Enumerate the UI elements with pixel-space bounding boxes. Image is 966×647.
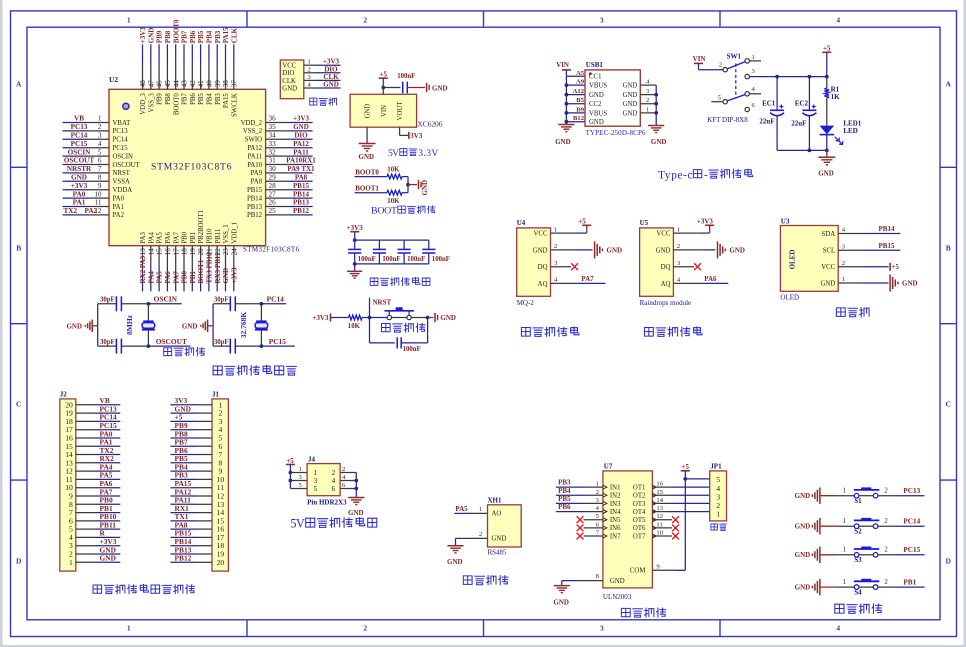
svg-text:2: 2 (884, 488, 888, 495)
svg-text:100nF: 100nF (407, 256, 425, 263)
svg-text:PA4: PA4 (148, 232, 155, 244)
svg-text:GND: GND (432, 84, 448, 92)
svg-text:SW1: SW1 (727, 52, 742, 60)
svg-text:PC14: PC14 (267, 295, 285, 304)
svg-text:100nF: 100nF (358, 256, 376, 263)
svg-text:1: 1 (716, 509, 720, 518)
svg-text:32: 32 (269, 148, 277, 156)
svg-text:GND: GND (623, 83, 638, 90)
svg-text:47: 47 (147, 80, 155, 88)
svg-text:VBUS: VBUS (589, 110, 607, 117)
svg-text:GND: GND (365, 104, 372, 119)
svg-text:DIO: DIO (282, 70, 294, 77)
svg-text:PB6: PB6 (189, 30, 197, 43)
svg-text:PA7: PA7 (581, 275, 594, 283)
svg-text:IN7: IN7 (610, 533, 621, 540)
svg-text:1: 1 (554, 226, 557, 233)
svg-text:33: 33 (269, 140, 277, 148)
svg-text:PA4: PA4 (147, 271, 155, 284)
svg-text:VIN: VIN (693, 55, 706, 63)
svg-text:PB7: PB7 (181, 30, 189, 43)
svg-text:DQ: DQ (538, 264, 548, 271)
svg-text:NRST: NRST (373, 299, 392, 307)
svg-text:OSCOUT: OSCOUT (64, 157, 95, 165)
svg-text:1: 1 (69, 558, 73, 567)
svg-text:30pF: 30pF (214, 297, 229, 304)
svg-text:PB3: PB3 (215, 93, 222, 105)
svg-text:PB12: PB12 (247, 212, 263, 219)
svg-text:GND: GND (902, 280, 918, 288)
svg-text:PA9 TX1: PA9 TX1 (287, 165, 315, 173)
svg-text:PB13: PB13 (293, 199, 309, 207)
svg-text:J2: J2 (60, 390, 68, 398)
svg-text:VDD_1: VDD_1 (231, 222, 238, 244)
svg-text:COM: COM (630, 568, 646, 575)
svg-text:OLED: OLED (789, 250, 797, 270)
svg-text:PA5: PA5 (455, 505, 468, 513)
svg-text:GND: GND (656, 247, 671, 254)
svg-text:37: 37 (230, 80, 238, 88)
svg-text:26: 26 (269, 199, 277, 207)
svg-text:1: 1 (843, 547, 846, 554)
svg-text:1: 1 (127, 16, 131, 25)
svg-text:B5: B5 (576, 97, 584, 104)
svg-text:OT2: OT2 (633, 493, 646, 500)
svg-text:VBAT: VBAT (113, 120, 132, 127)
svg-text:XH1: XH1 (488, 497, 503, 505)
svg-text:GND: GND (293, 123, 309, 131)
svg-text:PB0: PB0 (181, 271, 189, 284)
svg-text:STM32F103C8T6: STM32F103C8T6 (151, 161, 232, 172)
svg-text:GND: GND (607, 246, 623, 254)
svg-text:PB8: PB8 (164, 30, 172, 43)
svg-text:GND: GND (795, 492, 811, 500)
svg-text:PB12: PB12 (175, 554, 192, 563)
svg-text:GND: GND (440, 314, 456, 322)
svg-text:+5: +5 (682, 463, 690, 471)
svg-text:8MHz: 8MHz (125, 314, 134, 335)
svg-text:VIN: VIN (381, 105, 388, 117)
svg-text:PA7: PA7 (173, 232, 180, 244)
svg-text:BOOT: BOOT (371, 206, 397, 217)
svg-text:XC6206: XC6206 (417, 120, 442, 129)
svg-text:2: 2 (554, 243, 557, 250)
svg-text:1: 1 (308, 59, 311, 66)
svg-text:GND: GND (553, 599, 569, 607)
svg-text:+3V3: +3V3 (71, 182, 88, 190)
svg-text:PA12: PA12 (247, 145, 262, 152)
svg-text:7: 7 (98, 165, 102, 173)
svg-text:SDA: SDA (822, 231, 836, 238)
svg-text:U2: U2 (109, 75, 118, 84)
svg-text:VOUT: VOUT (397, 101, 404, 121)
svg-text:C: C (945, 400, 950, 409)
svg-text:+3V3: +3V3 (139, 27, 147, 44)
svg-text:PB13: PB13 (247, 204, 263, 211)
svg-text:48: 48 (139, 80, 147, 88)
svg-text:10K: 10K (387, 167, 400, 174)
svg-text:100nF: 100nF (397, 73, 415, 80)
svg-text:5V: 5V (388, 148, 399, 159)
svg-text:AQ: AQ (538, 281, 548, 288)
svg-text:PB12: PB12 (293, 207, 309, 215)
svg-text:44: 44 (172, 80, 180, 88)
svg-text:100nF: 100nF (382, 256, 400, 263)
svg-text:VDD_2: VDD_2 (241, 120, 263, 127)
svg-text:-: - (704, 169, 708, 181)
svg-text:41: 41 (197, 80, 205, 88)
svg-text:PA2: PA2 (85, 207, 98, 215)
svg-text:2: 2 (677, 243, 680, 250)
svg-text:OLED: OLED (780, 294, 799, 302)
svg-text:PB10: PB10 (207, 228, 214, 244)
svg-text:PB6: PB6 (558, 503, 571, 511)
svg-text:4: 4 (836, 16, 840, 25)
svg-text:22uF: 22uF (791, 119, 806, 127)
svg-text:GND: GND (147, 28, 155, 44)
svg-text:TYPEC-250D-8CP6: TYPEC-250D-8CP6 (586, 129, 647, 137)
svg-text:VSS_3: VSS_3 (148, 93, 155, 113)
svg-text:PB1: PB1 (903, 579, 916, 587)
svg-text:DIO: DIO (294, 132, 308, 140)
svg-text:GND: GND (447, 558, 463, 566)
svg-text:Type-c: Type-c (658, 169, 693, 181)
svg-text:JP1: JP1 (710, 462, 722, 470)
svg-text:PA11: PA11 (247, 153, 262, 160)
svg-text:STM32F103C8T6: STM32F103C8T6 (243, 246, 300, 254)
svg-text:D: D (16, 557, 22, 566)
svg-text:IN6: IN6 (610, 525, 621, 532)
svg-text:PB14: PB14 (293, 190, 309, 198)
svg-text:PC13: PC13 (113, 128, 129, 135)
svg-text:B: B (946, 244, 951, 253)
svg-text:4: 4 (98, 140, 102, 148)
svg-text:10: 10 (94, 190, 102, 198)
svg-text:PB5: PB5 (198, 93, 205, 105)
svg-text:VCC: VCC (282, 63, 296, 70)
svg-text:GND: GND (66, 322, 82, 330)
svg-text:SWCLK: SWCLK (231, 93, 238, 117)
svg-text:PA5: PA5 (157, 232, 164, 244)
svg-text:GND: GND (795, 551, 811, 559)
svg-text:IN2: IN2 (610, 493, 621, 500)
svg-text:2: 2 (842, 260, 845, 267)
svg-text:3.3V: 3.3V (418, 148, 438, 159)
svg-text:PA0: PA0 (73, 190, 86, 198)
svg-text:36: 36 (269, 115, 277, 123)
svg-text:PA3: PA3 (140, 232, 147, 244)
svg-text:S4: S4 (854, 588, 862, 596)
svg-text:CLK: CLK (282, 78, 296, 85)
svg-text:BOOT0: BOOT0 (173, 93, 180, 116)
svg-text:BOOT0: BOOT0 (355, 168, 379, 176)
svg-text:PA6: PA6 (164, 271, 172, 284)
svg-text:40: 40 (206, 80, 214, 88)
svg-text:25: 25 (269, 207, 277, 215)
svg-text:2: 2 (332, 469, 336, 477)
svg-text:2: 2 (363, 623, 367, 632)
svg-text:+3V3: +3V3 (312, 314, 329, 322)
svg-text:GND: GND (533, 247, 548, 254)
svg-text:1: 1 (479, 506, 482, 513)
svg-text:PA12: PA12 (293, 140, 309, 148)
svg-text:1: 1 (314, 469, 318, 477)
svg-text:GND: GND (795, 584, 811, 592)
svg-text:GND: GND (795, 523, 811, 531)
svg-text:A12: A12 (573, 88, 585, 95)
svg-text:B: B (16, 244, 21, 253)
svg-text:PB0: PB0 (182, 231, 189, 243)
svg-text:PC15: PC15 (903, 546, 920, 554)
svg-text:A: A (16, 80, 22, 89)
svg-text:PC14: PC14 (903, 518, 920, 526)
svg-text:OT7: OT7 (633, 533, 646, 540)
svg-text:GND: GND (623, 110, 638, 117)
svg-text:PC13: PC13 (903, 487, 920, 495)
svg-text:PA11: PA11 (293, 148, 309, 156)
svg-text:PB4: PB4 (207, 93, 214, 105)
svg-text:3: 3 (600, 623, 604, 632)
svg-text:5V: 5V (290, 517, 304, 531)
svg-text:13: 13 (139, 248, 147, 256)
svg-text:16: 16 (164, 248, 172, 256)
svg-text:27: 27 (269, 190, 277, 198)
svg-text:U4: U4 (517, 219, 526, 227)
svg-text:Raindrops module: Raindrops module (640, 299, 692, 307)
svg-text:3: 3 (314, 477, 318, 485)
svg-text:AO: AO (492, 511, 502, 518)
svg-text:DQ: DQ (661, 264, 671, 271)
svg-text:GND: GND (222, 268, 230, 284)
svg-text:PA2: PA2 (113, 212, 125, 219)
svg-text:S2: S2 (854, 527, 862, 535)
svg-text:OT5: OT5 (633, 517, 646, 524)
svg-text:OSCOUT: OSCOUT (156, 337, 187, 346)
svg-text:10K: 10K (348, 323, 361, 330)
svg-text:GND: GND (818, 169, 834, 177)
svg-text:PA6: PA6 (704, 275, 717, 283)
svg-text:2: 2 (719, 62, 722, 69)
svg-text:2: 2 (884, 579, 888, 586)
svg-text:100nF: 100nF (432, 256, 450, 263)
svg-text:3: 3 (600, 16, 604, 25)
svg-text:OT1: OT1 (633, 485, 645, 492)
svg-text:2: 2 (646, 97, 649, 104)
svg-text:OSCOUT: OSCOUT (113, 162, 141, 169)
svg-text:USB1: USB1 (586, 61, 604, 69)
svg-text:PB9: PB9 (157, 93, 164, 105)
svg-text:+3V3: +3V3 (697, 218, 714, 226)
svg-text:GND: GND (282, 85, 297, 92)
svg-text:PA1: PA1 (73, 199, 86, 207)
svg-text:LED: LED (843, 127, 857, 135)
svg-text:5: 5 (98, 148, 102, 156)
svg-text:GND: GND (348, 509, 364, 517)
svg-text:BOOT1: BOOT1 (355, 185, 379, 193)
svg-text:VIN: VIN (556, 61, 569, 69)
svg-text:RX2 PA3: RX2 PA3 (139, 255, 147, 283)
svg-text:PB3: PB3 (558, 479, 571, 487)
svg-text:OT4: OT4 (633, 509, 646, 516)
svg-text:1: 1 (752, 54, 755, 61)
svg-text:10K: 10K (387, 198, 400, 205)
svg-text:OT3: OT3 (633, 501, 646, 508)
svg-text:VCC: VCC (821, 264, 835, 271)
svg-text:2: 2 (308, 66, 311, 73)
svg-text:PB4: PB4 (558, 487, 571, 495)
svg-text:VCC: VCC (534, 231, 548, 238)
svg-text:31: 31 (269, 157, 277, 165)
svg-text:8: 8 (98, 174, 102, 182)
svg-text:B12: B12 (573, 115, 585, 122)
svg-text:GND: GND (820, 280, 835, 287)
svg-text:ULN2003: ULN2003 (603, 593, 632, 601)
svg-text:PB15: PB15 (247, 187, 263, 194)
svg-text:PB5: PB5 (197, 30, 205, 43)
svg-text:SWIO: SWIO (245, 137, 262, 144)
svg-text:J4: J4 (308, 455, 316, 463)
svg-text:VDD_3: VDD_3 (140, 93, 147, 115)
svg-text:+3V3: +3V3 (347, 224, 364, 232)
svg-text:VSSA: VSSA (113, 179, 130, 186)
svg-text:VSS_1: VSS_1 (223, 224, 230, 243)
svg-text:1: 1 (677, 226, 680, 233)
svg-text:22uF: 22uF (759, 117, 774, 125)
svg-text:3V3: 3V3 (410, 132, 423, 140)
svg-text:3: 3 (98, 132, 102, 140)
svg-text:29: 29 (269, 174, 277, 182)
svg-text:GND: GND (100, 554, 116, 563)
svg-text:5: 5 (314, 485, 318, 493)
svg-text:TX3 PB10: TX3 PB10 (206, 252, 214, 283)
svg-text:PA15: PA15 (223, 93, 230, 108)
svg-text:1: 1 (127, 623, 131, 632)
svg-text:IN1: IN1 (610, 485, 621, 492)
svg-text:4: 4 (332, 477, 336, 485)
svg-text:J1: J1 (212, 390, 220, 398)
svg-text:GND: GND (589, 92, 604, 99)
svg-text:39: 39 (214, 80, 222, 88)
svg-text:VDDA: VDDA (113, 187, 133, 194)
svg-text:28: 28 (269, 182, 277, 190)
svg-text:+5: +5 (578, 218, 586, 226)
svg-text:GND: GND (589, 119, 604, 126)
svg-text:PA8: PA8 (295, 174, 308, 182)
svg-text:1: 1 (843, 579, 846, 586)
svg-text:RS485: RS485 (488, 548, 508, 556)
svg-text:IN3: IN3 (610, 501, 621, 508)
svg-text:45: 45 (164, 80, 172, 88)
svg-text:Pin HDR2X3: Pin HDR2X3 (307, 499, 347, 507)
svg-text:KFT DIP-8X8: KFT DIP-8X8 (707, 116, 748, 124)
svg-text:PB3: PB3 (214, 30, 222, 43)
svg-text:PB1: PB1 (189, 271, 197, 284)
svg-text:PC15: PC15 (113, 145, 129, 152)
svg-text:PC14: PC14 (113, 137, 129, 144)
svg-text:24: 24 (230, 248, 238, 256)
svg-text:100nF: 100nF (403, 346, 421, 353)
svg-text:4: 4 (836, 623, 840, 632)
svg-text:PB15: PB15 (879, 242, 895, 250)
svg-text:GND: GND (359, 153, 375, 161)
svg-text:CC1: CC1 (589, 74, 601, 81)
svg-text:PB1: PB1 (190, 232, 197, 244)
svg-text:PB9: PB9 (156, 30, 164, 43)
svg-text:U3: U3 (781, 217, 790, 225)
svg-text:NRST: NRST (113, 170, 131, 177)
svg-text:OSCIN: OSCIN (154, 295, 178, 304)
svg-text:PA8: PA8 (251, 179, 263, 186)
svg-text:GND: GND (555, 138, 571, 146)
svg-text:PA6: PA6 (165, 232, 172, 244)
svg-text:GND: GND (492, 536, 507, 543)
svg-text:CLK: CLK (230, 27, 238, 43)
svg-text:PB7: PB7 (182, 93, 189, 105)
svg-text:AQ: AQ (661, 281, 671, 288)
svg-text:GND: GND (323, 81, 339, 89)
svg-text:34: 34 (269, 132, 277, 140)
svg-text:EC2: EC2 (795, 99, 809, 107)
svg-text:46: 46 (156, 80, 164, 88)
svg-text:PA10RX1: PA10RX1 (286, 157, 316, 165)
svg-text:PA5: PA5 (156, 271, 164, 284)
svg-text:35: 35 (269, 123, 277, 131)
svg-text:OSCIN: OSCIN (68, 148, 92, 156)
svg-text:+3V3: +3V3 (293, 115, 310, 123)
svg-text:U5: U5 (640, 219, 649, 227)
svg-text:32.768K: 32.768K (239, 312, 248, 339)
svg-text:S1: S1 (854, 497, 862, 505)
svg-text:PA7: PA7 (172, 271, 180, 284)
svg-text:PB14: PB14 (247, 195, 263, 202)
svg-text:EC1: EC1 (762, 99, 776, 107)
svg-text:2: 2 (363, 16, 367, 25)
svg-text:PC14: PC14 (71, 132, 88, 140)
svg-text:VCC: VCC (656, 231, 670, 238)
svg-text:+5: +5 (380, 71, 388, 79)
svg-text:30pF: 30pF (100, 339, 115, 346)
svg-text:GND: GND (729, 246, 745, 254)
svg-text:VB: VB (74, 115, 84, 123)
svg-text:+5: +5 (823, 45, 831, 53)
svg-text:BOOT0: BOOT0 (172, 19, 180, 43)
svg-text:38: 38 (222, 80, 230, 88)
svg-text:+5: +5 (892, 264, 900, 271)
svg-text:30pF: 30pF (100, 297, 115, 304)
svg-text:RX3 PB11: RX3 PB11 (214, 252, 222, 283)
svg-text:MQ-2: MQ-2 (517, 299, 535, 307)
svg-text:1: 1 (843, 488, 846, 495)
svg-text:VSS_2: VSS_2 (243, 128, 263, 135)
svg-text:B9: B9 (576, 106, 584, 113)
svg-text:SCL: SCL (823, 248, 835, 255)
svg-text:18: 18 (181, 248, 189, 256)
svg-text:1: 1 (98, 115, 102, 123)
svg-text:1K: 1K (831, 93, 841, 101)
svg-text:U7: U7 (604, 462, 613, 470)
svg-text:PA15: PA15 (222, 27, 230, 43)
svg-text:20: 20 (197, 248, 205, 256)
svg-text:IN4: IN4 (610, 509, 621, 516)
svg-text:PA1: PA1 (113, 204, 124, 211)
svg-text:11: 11 (95, 199, 102, 207)
svg-text:PC15: PC15 (269, 337, 287, 346)
svg-text:1: 1 (299, 466, 302, 473)
svg-text:6: 6 (98, 157, 102, 165)
svg-text:GND: GND (71, 174, 87, 182)
svg-text:GND: GND (421, 180, 429, 196)
svg-text:GND: GND (651, 138, 667, 146)
